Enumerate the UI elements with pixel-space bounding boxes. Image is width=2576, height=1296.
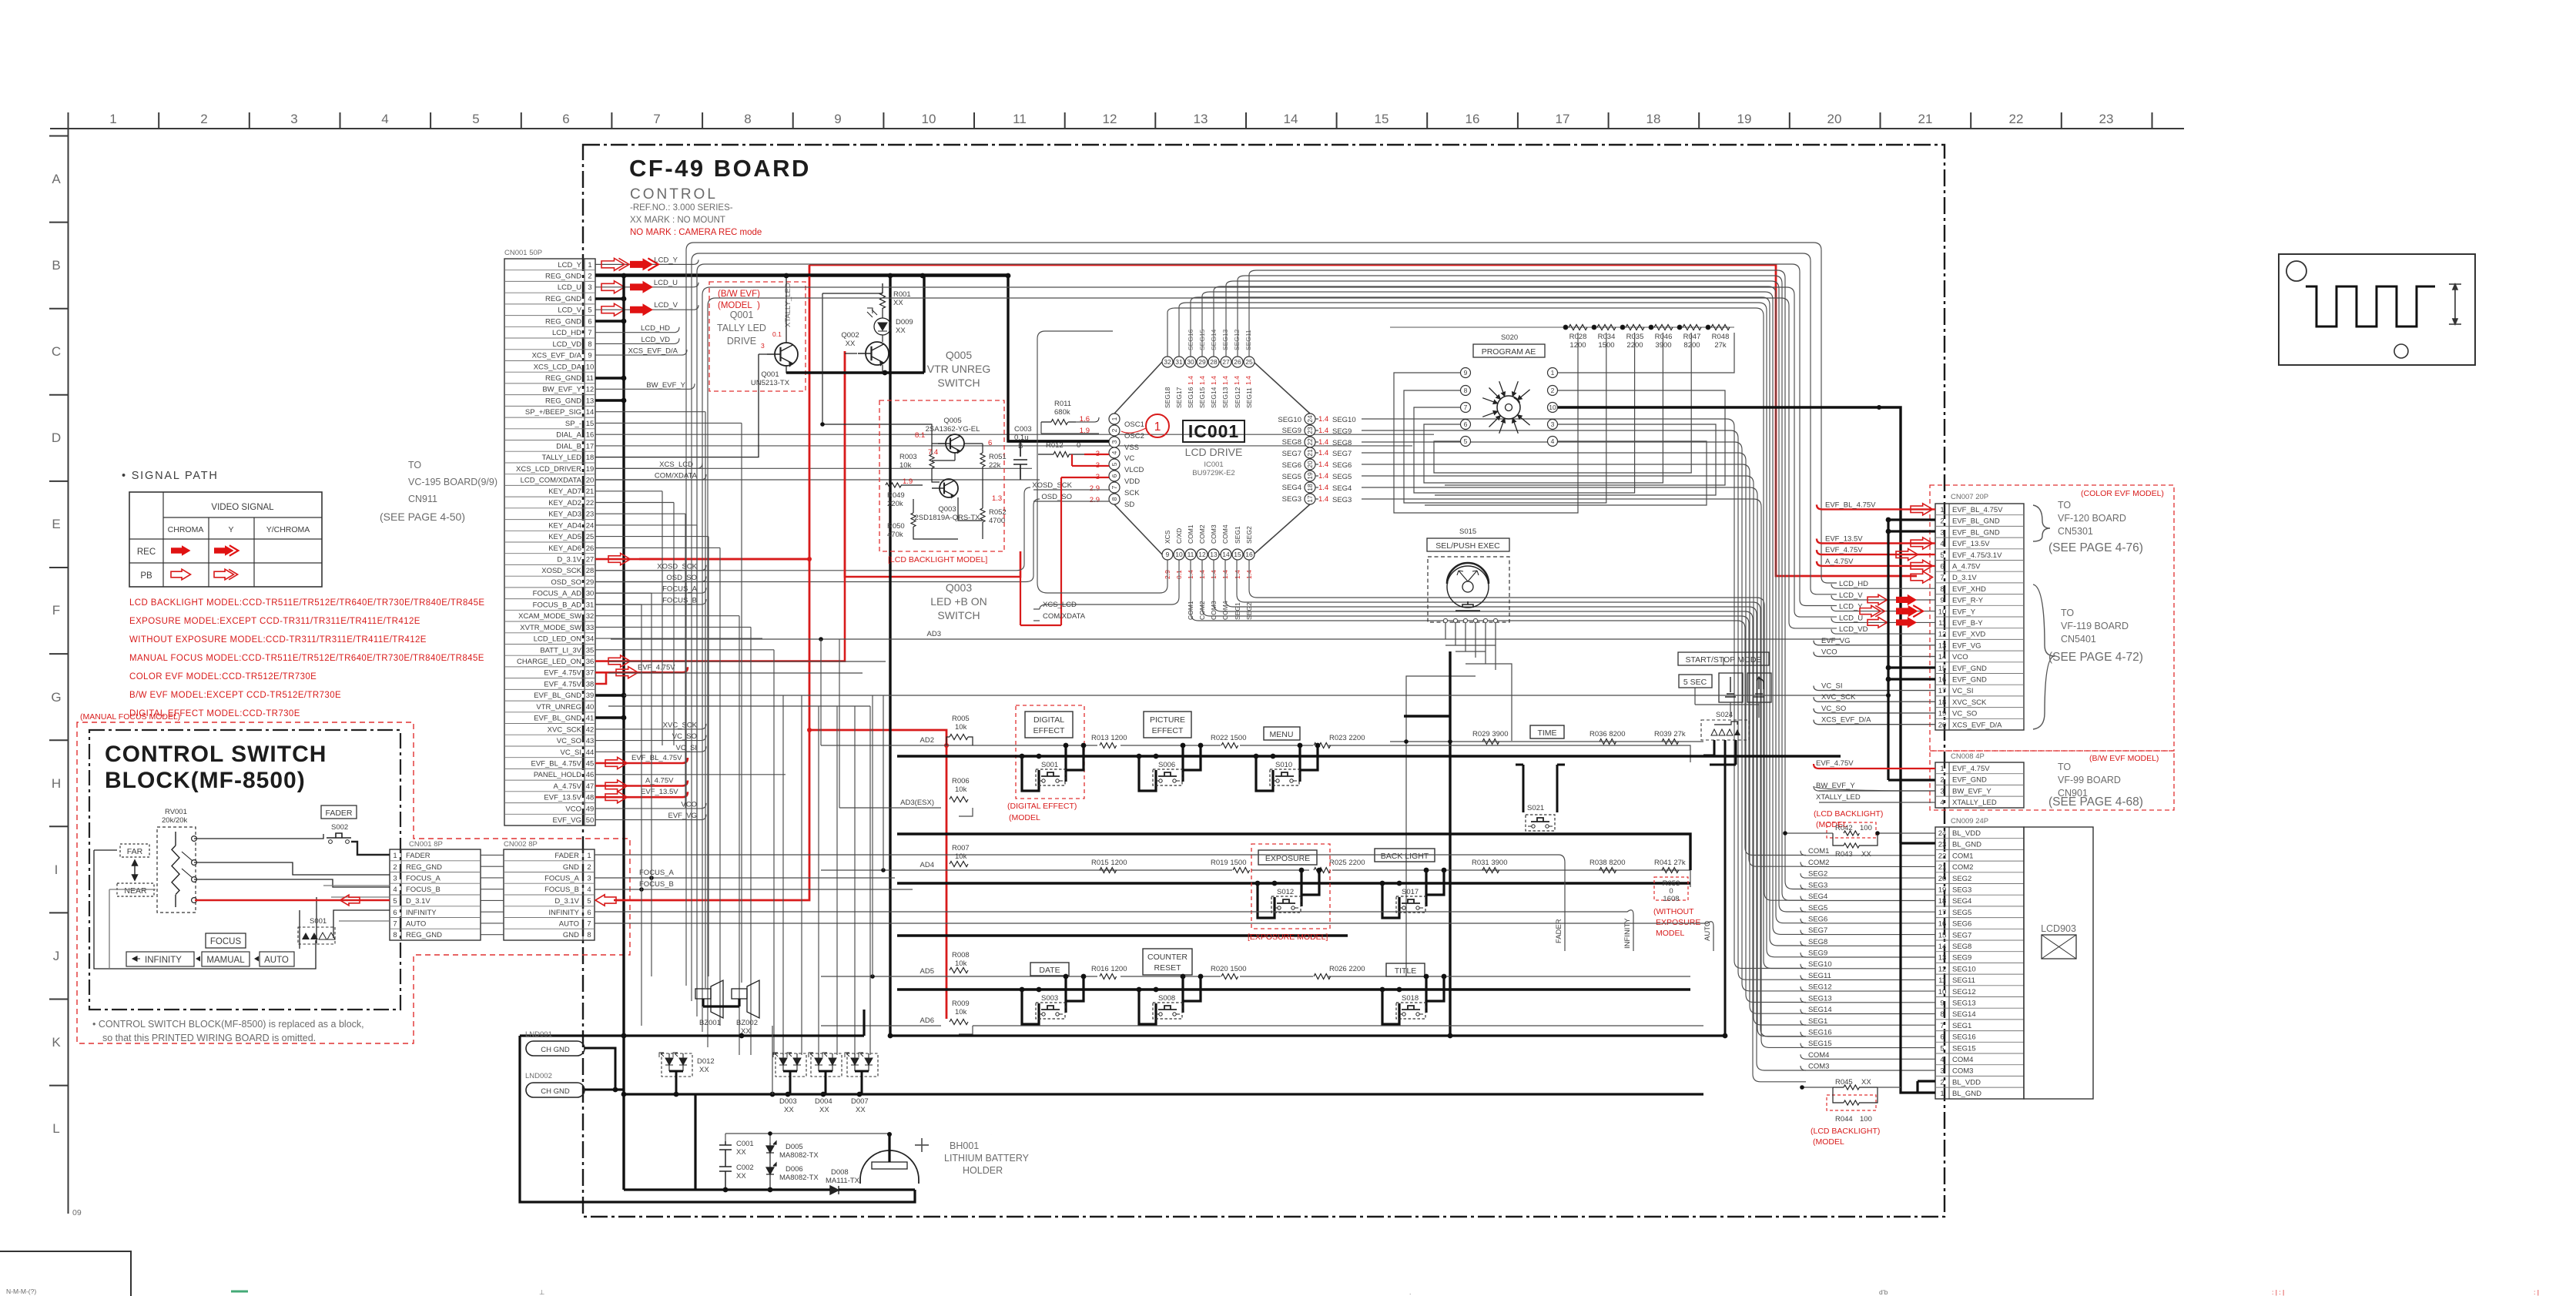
svg-text:5: 5 [588,306,591,315]
svg-text:1.4: 1.4 [1318,449,1328,457]
svg-text:470k: 470k [887,531,903,539]
svg-text:Q003: Q003 [938,505,956,514]
svg-text:5: 5 [1464,437,1468,445]
svg-text:47: 47 [586,782,595,791]
svg-text:9: 9 [588,352,591,360]
svg-text:SEG1: SEG1 [1952,1022,1971,1030]
model box B/W EVF [709,282,806,391]
wire D_3.1V rail (red) [614,265,1917,1019]
svg-text:18: 18 [1306,484,1314,491]
capacitor C001 [719,1141,732,1160]
svg-text:COM4: COM4 [1952,1056,1973,1064]
svg-text:XCAM_MODE_SW: XCAM_MODE_SW [518,612,581,621]
LED D009 [874,318,891,335]
svg-text:LCD_V: LCD_V [1839,591,1863,600]
svg-text:CN5401: CN5401 [2061,634,2096,645]
svg-text:20: 20 [1938,875,1947,883]
svg-text:D: D [52,430,61,445]
wire EVF_BL_4.75V pin45 (red) [595,758,688,763]
switch S006 picture effect [1139,745,1201,791]
svg-text:48: 48 [586,794,595,802]
svg-text:C002: C002 [736,1164,754,1172]
svg-text:VCO: VCO [1821,648,1837,657]
switch S017 back light [1382,870,1444,918]
wire speaker feeds [705,412,742,988]
svg-text:FOCUS_B: FOCUS_B [639,880,674,889]
svg-text:SEL/PUSH EXEC: SEL/PUSH EXEC [1435,541,1500,551]
svg-text:XCS_EVF_D/A: XCS_EVF_D/A [628,347,678,356]
svg-text:8: 8 [393,931,397,939]
svg-text:R038 8200: R038 8200 [1589,859,1625,867]
resistor R001 [880,283,886,317]
svg-text:BL_VDD: BL_VDD [1952,1078,1981,1087]
wire CH GND links [585,1048,615,1090]
svg-text:12: 12 [1198,551,1206,558]
svg-text:VCO: VCO [1952,653,1968,661]
svg-text:SEG12: SEG12 [1808,983,1832,992]
svg-text:VC_SI: VC_SI [1952,687,1973,695]
svg-text:CONTROL: CONTROL [630,186,718,203]
svg-text:SEG18: SEG18 [1164,387,1171,408]
svg-text:19: 19 [1938,886,1947,895]
svg-text:28: 28 [586,567,595,575]
svg-text:VC-195 BOARD(9/9): VC-195 BOARD(9/9) [408,477,497,487]
svg-text:16: 16 [1245,551,1253,558]
svg-text:EXPOSURE: EXPOSURE [1656,918,1700,927]
svg-text:VC_SI: VC_SI [561,748,581,757]
svg-text:EVF_13.5V: EVF_13.5V [544,794,581,802]
wire Q001 connections [595,276,924,457]
svg-text:33: 33 [586,624,595,632]
svg-text:18: 18 [1938,897,1947,906]
wire lower rail (thick) [897,934,1348,936]
resistor R042 [1827,822,1876,838]
svg-text:6: 6 [588,317,591,326]
node FOCUS [206,933,246,948]
svg-text:XCS_EVF_D/A: XCS_EVF_D/A [532,352,582,360]
svg-text:COM3: COM3 [1210,524,1218,544]
svg-text:TALLY_LED: TALLY_LED [542,454,582,462]
svg-text:15: 15 [586,420,595,428]
svg-text:SEG9: SEG9 [1332,427,1352,436]
svg-text:R003: R003 [899,453,917,461]
svg-text:VC_SI: VC_SI [1821,682,1842,691]
switch S001 focus [298,917,335,944]
svg-text:8: 8 [1110,497,1118,501]
svg-text:7: 7 [587,920,591,929]
svg-text:S018: S018 [1402,994,1419,1003]
svg-text:5: 5 [393,897,397,906]
node stub labels right of CN001 [628,324,698,820]
svg-text:30: 30 [586,590,595,598]
svg-text:A_4.75V: A_4.75V [1825,558,1854,566]
svg-text:SEG11: SEG11 [1952,976,1975,985]
svg-text:LED +B ON: LED +B ON [930,595,987,608]
wire misc horizontals [608,661,1888,706]
node LCD903 [2024,827,2093,1099]
svg-text:S006: S006 [1158,761,1175,769]
battery BH001 holder [860,1150,919,1184]
svg-text:19: 19 [586,465,595,474]
svg-text:SEG4: SEG4 [1282,484,1301,492]
svg-text:Q001: Q001 [761,370,779,379]
svg-text:A_4.75V: A_4.75V [645,777,674,785]
svg-text:29: 29 [586,578,595,587]
svg-text:S010: S010 [1275,761,1292,769]
node IC001 pins right [1278,414,1378,504]
svg-text:LND002: LND002 [525,1072,552,1080]
svg-text:7: 7 [393,920,397,929]
svg-text:32: 32 [586,612,595,621]
svg-text:XX: XX [819,1106,829,1114]
svg-text:(B/W EVF MODEL): (B/W EVF MODEL) [2089,754,2159,763]
svg-text:FOCUS_A: FOCUS_A [406,875,441,883]
svg-text:1.4: 1.4 [1233,376,1241,385]
svg-text:4: 4 [1940,1056,1944,1064]
svg-text:MENU: MENU [1270,730,1294,739]
svg-text:TIME: TIME [1537,728,1556,738]
svg-text:SEG3: SEG3 [1952,886,1971,895]
wire D_3.1V red feed to RV001 [195,899,390,901]
svg-text:6: 6 [988,439,992,447]
svg-text:LCD_LED_ON: LCD_LED_ON [534,635,581,644]
svg-text:26: 26 [1234,358,1241,366]
svg-text:2: 2 [587,863,591,872]
svg-text:1608: 1608 [1663,895,1679,903]
svg-text:31: 31 [586,601,595,609]
svg-text:EVF_Y: EVF_Y [1952,608,1976,616]
svg-text:SEG14: SEG14 [1952,1010,1976,1019]
svg-text:INFINITY: INFINITY [145,956,182,965]
svg-text:FOCUS: FOCUS [210,937,242,946]
svg-text:10k: 10k [899,461,912,470]
svg-text:28: 28 [1210,358,1218,366]
wire A_4.75V pin47 (red) [595,781,688,786]
svg-text:FOCUS_B_AD: FOCUS_B_AD [533,601,581,609]
svg-text:LCD903: LCD903 [2041,923,2076,934]
svg-text:7: 7 [588,329,591,337]
svg-text:S024: S024 [1716,711,1733,719]
svg-text:R022 1500: R022 1500 [1211,734,1246,742]
svg-text:5: 5 [1940,1044,1944,1053]
svg-text:1: 1 [1940,1090,1944,1098]
svg-text:SEG12: SEG12 [1952,988,1976,996]
svg-text:6: 6 [562,112,569,126]
svg-text:COM4: COM4 [1221,601,1229,620]
svg-text:REG_GND: REG_GND [545,273,581,281]
svg-text:EVF_GND: EVF_GND [1952,676,1987,685]
svg-text:VC_SO: VC_SO [557,737,581,745]
svg-text:22: 22 [1938,852,1947,860]
svg-text:LCD DRIVE: LCD DRIVE [1185,446,1243,458]
svg-text:D004: D004 [815,1097,832,1106]
svg-text:1.4: 1.4 [1318,438,1328,447]
svg-text:1: 1 [1551,369,1555,377]
svg-text:17: 17 [1938,909,1947,917]
svg-text:1.4: 1.4 [1234,570,1241,579]
svg-text:8: 8 [588,340,591,349]
svg-text:INFINITY: INFINITY [548,909,579,917]
svg-text:4: 4 [587,886,591,894]
svg-text:EVF_BL_GND: EVF_BL_GND [534,715,581,723]
svg-text:SEG16: SEG16 [1952,1033,1976,1042]
svg-text:EVF_BL_4.75V: EVF_BL_4.75V [1952,506,2003,514]
wire AD4 rail (thick) [897,882,1690,884]
svg-text:D003: D003 [779,1097,797,1106]
svg-text:10: 10 [1938,988,1947,996]
svg-text:EVF_VG: EVF_VG [1821,637,1851,645]
svg-text:EXPOSURE: EXPOSURE [1265,854,1310,863]
svg-text:FOCUS_B: FOCUS_B [544,886,579,894]
svg-text:4: 4 [1110,450,1118,454]
svg-text:17: 17 [1938,687,1947,695]
svg-text:3: 3 [761,342,765,350]
svg-text:3: 3 [588,283,591,292]
transistor Q005 [946,434,964,453]
svg-text:(MODEL: (MODEL [1813,1137,1844,1147]
svg-text:LCD_VD: LCD_VD [641,336,671,344]
svg-text:2: 2 [1940,1078,1944,1087]
signal path legend [122,470,322,587]
svg-text:C: C [52,344,61,359]
svg-text:VF-119 BOARD: VF-119 BOARD [2061,621,2129,631]
svg-text:COM1: COM1 [1952,852,1973,860]
svg-text:CH GND: CH GND [541,1087,570,1096]
svg-text:DRIVE: DRIVE [727,336,756,347]
svg-text:R001: R001 [893,290,911,299]
svg-text:XOSD_SCK: XOSD_SCK [541,567,581,575]
svg-text:SEG3: SEG3 [1282,495,1301,504]
wire EVF_13.5V pin48 (red) [595,792,688,797]
svg-text:R026 2200: R026 2200 [1329,965,1365,973]
svg-text:BZ002: BZ002 [736,1019,758,1027]
svg-text:1.4: 1.4 [1318,472,1328,481]
svg-text:6: 6 [1110,474,1118,477]
potentiometer RV001 [157,808,196,913]
svg-text:VCO: VCO [681,800,697,809]
svg-text:13: 13 [1938,641,1947,650]
svg-text:FOCUS_A: FOCUS_A [544,875,580,883]
svg-text:5: 5 [1110,462,1118,466]
svg-text:S012: S012 [1277,888,1294,896]
svg-text:SEG4: SEG4 [1332,484,1352,493]
svg-text:7: 7 [1110,485,1118,489]
resistor R044 [1827,1095,1876,1110]
svg-text:SEG13: SEG13 [1808,994,1832,1003]
svg-text:34: 34 [586,635,595,644]
svg-text:R039 27k: R039 27k [1654,730,1686,738]
wire VTR unreg rails [890,275,924,1036]
svg-text:EVF_VG: EVF_VG [553,816,582,825]
svg-text:SEG1: SEG1 [1808,1017,1827,1026]
wire key line verticals [641,491,883,1055]
svg-text:13: 13 [1210,551,1218,558]
switch S003 date [1022,976,1084,1024]
node IC001 pins top [1162,329,1255,408]
svg-text:BH001: BH001 [950,1140,979,1151]
svg-text:(COLOR EVF MODEL): (COLOR EVF MODEL) [2081,489,2164,498]
svg-text:AD4: AD4 [920,861,934,869]
svg-text:Q002: Q002 [841,331,859,340]
svg-text:0.1: 0.1 [772,330,782,338]
svg-text:EFFECT: EFFECT [1152,726,1184,735]
svg-text:AUTO: AUTO [1703,921,1712,941]
svg-text:REG_GND: REG_GND [406,863,442,872]
svg-text:KEY_AD5: KEY_AD5 [548,533,581,541]
svg-text:25: 25 [1245,358,1253,366]
svg-text:FADER: FADER [1555,919,1563,943]
svg-text:XCS_LCD_DA: XCS_LCD_DA [534,363,582,371]
svg-text:220k: 220k [887,500,903,508]
svg-text:SEG7: SEG7 [1282,450,1301,458]
svg-text:KEY_AD6: KEY_AD6 [548,544,581,553]
svg-text:R036 8200: R036 8200 [1589,730,1625,738]
wire S015 drop (thick) [1404,651,1450,1036]
svg-text:29: 29 [1198,358,1206,366]
svg-text:18: 18 [1646,112,1661,126]
svg-text:43: 43 [586,737,595,745]
svg-text:SEG6: SEG6 [1282,461,1301,470]
resistor R003 [930,454,934,468]
svg-text:10k: 10k [955,1008,967,1016]
node TO VC-195 BOARD CN911 [380,460,497,523]
svg-text:VC: VC [1124,454,1134,463]
svg-text:FADER: FADER [406,852,430,860]
svg-text:XOSD_SCK: XOSD_SCK [1032,481,1072,490]
svg-text:15: 15 [1234,551,1241,558]
svg-text:OSD_SO: OSD_SO [1041,493,1072,501]
svg-text:S008: S008 [1158,994,1175,1003]
svg-text:R041 27k: R041 27k [1654,859,1686,867]
svg-text:1.4: 1.4 [1318,495,1328,504]
svg-text:EVF_R-Y: EVF_R-Y [1952,597,1984,605]
svg-text:EVF_BL_4.75V: EVF_BL_4.75V [1825,501,1876,509]
svg-text:A_4.75V: A_4.75V [554,782,582,791]
node DIGITAL EFFECT [1025,712,1073,738]
svg-text:1: 1 [1154,420,1161,434]
svg-text:9: 9 [834,112,841,126]
svg-text:PB: PB [140,571,152,581]
svg-text:LCD_COM/XDATA: LCD_COM/XDATA [521,477,582,485]
resistor R051 [980,453,985,467]
svg-text:SEG10: SEG10 [1278,416,1301,424]
svg-text:REG_GND: REG_GND [545,295,581,303]
svg-text:4: 4 [393,886,397,894]
svg-text:PANEL_HOLD: PANEL_HOLD [534,771,581,779]
svg-text:D012: D012 [697,1057,715,1066]
svg-text:COM2: COM2 [1808,859,1829,867]
svg-text:EVF_BL_4.75V: EVF_BL_4.75V [631,754,682,762]
svg-text:MA8082-TX: MA8082-TX [779,1174,819,1182]
wire CN009 stubs [1801,851,1935,1070]
resistor row R028/R034/R035/R046/R047/R048 [1390,325,1734,330]
svg-text:SEG12: SEG12 [1234,387,1241,408]
svg-text:EVF_B-Y: EVF_B-Y [1952,619,1983,628]
svg-text:R029 3900: R029 3900 [1472,730,1508,738]
svg-text:BLOCK(MF-8500): BLOCK(MF-8500) [105,768,306,793]
svg-text:10k: 10k [955,959,967,968]
svg-text:so that this PRINTED WIRING BO: so that this PRINTED WIRING BOARD is omi… [102,1033,316,1043]
wire ground bus bottom (thick) [615,1090,1703,1094]
svg-text:VLCD: VLCD [1124,466,1144,474]
svg-text:2SA1362-YG-EL: 2SA1362-YG-EL [926,425,980,434]
svg-text:XX: XX [893,299,903,307]
svg-text:17: 17 [586,442,595,450]
svg-text:COM4: COM4 [1221,524,1229,544]
svg-text:44: 44 [586,748,595,757]
svg-text:: |: : | [2534,1288,2539,1296]
wire bus CN001 rows to schematic [595,412,1434,775]
svg-text:1: 1 [109,112,116,126]
svg-text:NO MARK : CAMERA REC mode: NO MARK : CAMERA REC mode [630,228,762,237]
svg-text:EFFECT: EFFECT [1033,726,1065,735]
svg-text:BATT_LI_3V: BATT_LI_3V [540,646,581,655]
svg-text:XX: XX [1861,850,1871,859]
svg-text:FOCUS_A_AD: FOCUS_A_AD [533,590,581,598]
svg-text:17: 17 [1306,495,1314,503]
svg-text:D008: D008 [831,1168,849,1177]
buzzer BZ002 [732,989,747,999]
svg-text:SEG16: SEG16 [1808,1028,1832,1036]
svg-text:CN911: CN911 [408,494,437,504]
svg-text:VSS: VSS [1124,444,1139,452]
wire BW_EVF_Y hook [1814,786,1935,791]
svg-text:BW_EVF_Y: BW_EVF_Y [1816,782,1855,790]
svg-text:COM2: COM2 [1198,524,1206,544]
ground bus REG_GND [595,276,1008,1190]
svg-text:MA8082-TX: MA8082-TX [779,1151,819,1160]
svg-text:10: 10 [922,112,936,126]
svg-text:XVC_SCK: XVC_SCK [1821,693,1856,702]
svg-text:B: B [52,258,60,273]
svg-text:45: 45 [586,760,595,769]
svg-text:CN001 50P: CN001 50P [504,249,542,257]
svg-text:16: 16 [586,431,595,440]
svg-text:BL_VDD: BL_VDD [1952,829,1981,838]
svg-text:SWITCH: SWITCH [937,609,980,621]
svg-text:FOCUS_A: FOCUS_A [639,869,675,877]
svg-text:SEG2: SEG2 [1952,875,1971,883]
capacitor C002 [719,1160,732,1190]
svg-text:NEAR: NEAR [124,886,147,896]
wire IC001 top fan [1167,270,1806,969]
model box COLOR EVF [1930,485,2174,751]
svg-text:22k: 22k [989,461,1001,470]
svg-text:AUTO: AUTO [264,956,289,965]
wire CN008 stubs [1814,764,1935,802]
svg-text:FAR: FAR [127,847,143,856]
svg-text:42: 42 [586,725,595,734]
svg-text:7: 7 [653,112,660,126]
svg-text:REG_GND: REG_GND [545,397,581,405]
svg-text:Q001: Q001 [730,310,754,320]
svg-text:R007: R007 [952,844,970,852]
svg-text:.: . [1409,1288,1411,1296]
svg-text:RESET: RESET [1154,963,1181,973]
svg-text:11: 11 [1013,112,1027,126]
note model list [129,598,484,718]
svg-text:(MODEL: (MODEL [1009,813,1040,822]
svg-text:7.4: 7.4 [928,448,938,457]
svg-text:[EXPOSURE MODEL]: [EXPOSURE MODEL] [1248,933,1328,942]
svg-text:R011: R011 [1054,400,1071,408]
node CN007 braces [2033,505,2050,541]
svg-text:EXPOSURE MODEL:EXCEPT CCD-TR31: EXPOSURE MODEL:EXCEPT CCD-TR311/TR311E/T… [129,617,420,626]
svg-text:XCS_LCD_DRIVER: XCS_LCD_DRIVER [516,465,581,474]
svg-text:AUTO: AUTO [406,920,426,929]
svg-text:IC001: IC001 [1188,421,1239,441]
svg-text:XVTR_MODE_SW: XVTR_MODE_SW [520,624,581,632]
